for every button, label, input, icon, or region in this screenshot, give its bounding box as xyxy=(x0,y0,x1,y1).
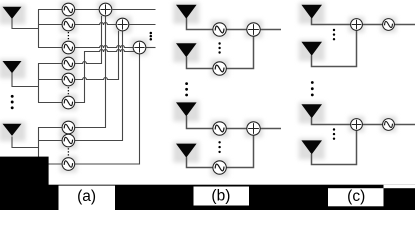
antenna ANT-C1 xyxy=(301,5,322,19)
label box (a) xyxy=(59,186,116,210)
wire bus node B1 xyxy=(38,10,40,48)
wire bus3 stub row1 xyxy=(38,127,62,129)
wire ANT-C4 feed riser to U7 xyxy=(312,130,357,164)
antenna ANT-B2 xyxy=(176,43,197,57)
phase shifter PS-C1 shadow xyxy=(381,17,397,33)
wire bus2 stub row2 xyxy=(38,79,62,81)
antenna ANT-C4 shadow xyxy=(299,138,325,159)
wire ANT-C1 feed xyxy=(312,18,351,24)
adder U4 shadow xyxy=(245,20,263,38)
node dots adder input C2 xyxy=(333,128,335,140)
phase shifter PS-A13 xyxy=(62,41,75,54)
white sliver right xyxy=(384,185,415,189)
wire bus3 stub row2 xyxy=(38,140,62,142)
wire U7 to PS-C2 xyxy=(362,124,382,126)
svg-text:(c): (c) xyxy=(347,188,365,205)
wire U1 output RF1 xyxy=(112,9,155,11)
wire PS-A13 to U3 with crossovers xyxy=(75,46,134,48)
wire ANT-B1 feed xyxy=(187,18,213,29)
antenna ANT-B1 xyxy=(176,5,197,19)
wire PS-A22 riser to U2 xyxy=(75,31,119,80)
phase shifter PS-C2 xyxy=(383,119,395,131)
phase shifter PS-B12 shadow xyxy=(211,59,229,77)
adder U7 shadow xyxy=(349,116,365,132)
antenna ANT1 shadow xyxy=(0,5,26,25)
wire PS-C2 output xyxy=(394,124,415,126)
antenna ANT-C3 xyxy=(301,104,322,118)
adder U4 xyxy=(247,23,260,36)
adder U6 xyxy=(351,19,363,31)
wire PS-A32 riser to U2 xyxy=(75,31,123,141)
label box (c) xyxy=(328,188,384,206)
wire ANT-C2 feed riser to U6 xyxy=(312,30,357,66)
node dots adder input C1 xyxy=(333,29,335,41)
wire bus node B2 xyxy=(38,64,40,103)
wire ANT2 feed xyxy=(12,73,39,87)
phase shifter PS-A22 xyxy=(62,73,75,86)
wire PS-A12 to U2 with crossovers xyxy=(75,23,117,25)
node dotted link column A3 xyxy=(67,148,69,156)
antenna ANT-C1 shadow xyxy=(299,3,325,24)
adder U2 shadow xyxy=(114,16,131,33)
phase shifter PS-B11 shadow xyxy=(211,20,229,38)
node dotted link column A2 xyxy=(67,87,69,94)
wire PS-C1 output xyxy=(394,24,415,26)
label box (b) xyxy=(194,187,250,206)
wire PS-B21 to U5 xyxy=(226,128,247,130)
phase shifter PS-A33 shadow xyxy=(60,156,77,173)
wire U5 output xyxy=(260,128,281,130)
wire U6 to PS-C1 xyxy=(362,24,382,26)
phase shifter PS-C2 shadow xyxy=(381,116,397,132)
wire ANT-B4 feed xyxy=(187,157,213,167)
phase shifter PS-A32 xyxy=(62,134,75,147)
phase shifter PS-A11 shadow xyxy=(60,1,77,18)
antenna ANT-B3 shadow xyxy=(173,100,199,121)
wire bus3 stub row3 xyxy=(38,163,62,165)
wire ANT-B2 feed xyxy=(187,57,213,69)
adder U3 xyxy=(133,41,146,54)
adder U5 shadow xyxy=(245,120,263,138)
phase shifter PS-A12 xyxy=(62,18,75,31)
wire ANT-C3 feed xyxy=(312,118,351,125)
phase shifter PS-A23 shadow xyxy=(60,94,77,111)
wire U4 output xyxy=(260,29,281,31)
node dots group B1 xyxy=(218,42,220,53)
phase shifter PS-B21 xyxy=(213,122,226,135)
wire PS-B12 riser to U4 xyxy=(226,36,253,68)
phase shifter PS-A21 xyxy=(62,57,75,70)
node dotted link column A1 xyxy=(67,32,69,39)
svg-text:(a): (a) xyxy=(77,188,96,205)
wire U2 output RF2 xyxy=(129,24,155,26)
node dots antenna column B xyxy=(185,82,188,96)
phase shifter PS-A22 shadow xyxy=(60,71,77,88)
svg-text:(b): (b) xyxy=(211,188,230,205)
wire PS-A11 to U1 xyxy=(75,9,100,11)
wire U3 output RF3 xyxy=(146,47,156,49)
wire PS-B11 to U4 xyxy=(226,29,247,31)
phase shifter PS-B21 shadow xyxy=(211,120,229,138)
antenna ANT-C3 shadow xyxy=(299,102,325,123)
phase shifter PS-B22 shadow xyxy=(211,159,229,177)
phase shifter PS-A31 shadow xyxy=(60,119,77,136)
wire bus1 stub row2 xyxy=(38,24,62,26)
phase shifter PS-A33 xyxy=(62,158,75,171)
phase shifter PS-A11 xyxy=(62,3,75,16)
adder U6 shadow xyxy=(349,17,365,33)
wire PS-A33 riser to U3 xyxy=(75,53,140,164)
antenna ANT-C4 xyxy=(301,140,322,154)
phase shifter PS-A21 shadow xyxy=(60,55,77,72)
wire bus2 stub row1 xyxy=(38,63,62,65)
adder U7 xyxy=(351,119,363,131)
adder U2 xyxy=(116,18,129,31)
phase shifter PS-C1 xyxy=(383,19,395,31)
antenna ANT-B4 xyxy=(176,144,197,158)
phase shifter PS-A13 shadow xyxy=(60,39,77,56)
wire ANT-B3 feed xyxy=(187,116,213,129)
antenna ANT2 shadow xyxy=(0,59,26,79)
node dots RF chains A xyxy=(150,32,153,41)
black occlusion box xyxy=(0,157,49,210)
node dots group B2 xyxy=(218,141,220,153)
wire PS-A21 riser to U1 xyxy=(75,16,102,64)
antenna ANT-B2 shadow xyxy=(173,41,199,62)
wire bus1 stub row1 xyxy=(38,9,62,11)
phase shifter PS-A23 xyxy=(62,96,75,109)
wire ANT3 feed xyxy=(12,137,39,148)
wire bus1 stub row3 xyxy=(38,47,62,49)
phase shifter PS-B22 xyxy=(213,161,226,174)
phase shifter PS-A31 xyxy=(62,121,75,134)
antenna ANT-B3 xyxy=(176,102,197,116)
adder U1 xyxy=(99,3,112,16)
phase shifter PS-A12 shadow xyxy=(60,16,77,33)
wire bus node B3 xyxy=(38,128,40,165)
antenna ANT-C2 xyxy=(301,42,322,56)
phase shifter PS-A32 shadow xyxy=(60,133,77,150)
antenna ANT-B4 shadow xyxy=(173,142,199,163)
antenna ANT-C2 shadow xyxy=(299,40,325,61)
node dots antenna column A xyxy=(11,95,14,109)
black caption bar xyxy=(0,185,415,210)
wire ANT1 feed xyxy=(12,19,39,29)
wire PS-A31 riser to U1 xyxy=(75,16,106,128)
adder U3 shadow xyxy=(131,39,148,56)
wire PS-B22 riser to U5 xyxy=(226,135,253,167)
antenna ANT2 xyxy=(3,61,22,73)
phase shifter PS-B12 xyxy=(213,62,226,75)
phase shifter PS-B11 xyxy=(213,23,226,36)
wire PS-A23 riser to U3 lower-left xyxy=(75,50,136,103)
adder U1 shadow xyxy=(98,1,115,18)
antenna ANT-B1 shadow xyxy=(173,3,199,24)
node dots antenna column C xyxy=(311,81,314,96)
wire bus2 stub row3 xyxy=(38,102,62,104)
antenna ANT1 xyxy=(3,7,22,19)
adder U5 xyxy=(247,122,260,135)
antenna ANT3 shadow xyxy=(0,122,26,142)
antenna ANT3 xyxy=(3,124,22,136)
